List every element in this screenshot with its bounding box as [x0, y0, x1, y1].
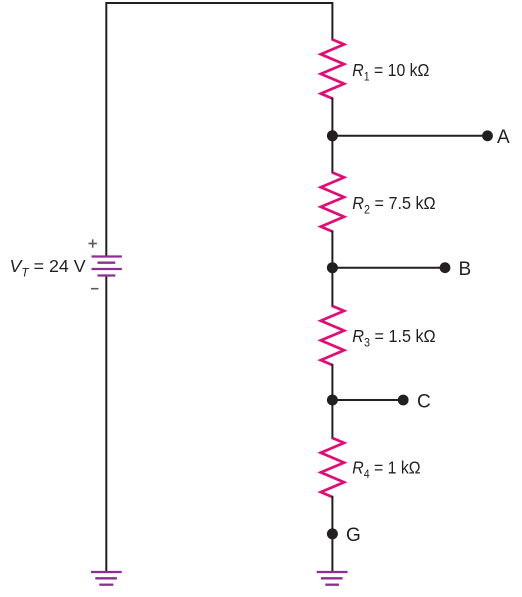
svg-text:R3 = 1.5 kΩ: R3 = 1.5 kΩ [352, 326, 436, 349]
node B end dot [440, 262, 451, 273]
wire right vertical seg2 (R1 to R2) [331, 98, 333, 174]
wire right vertical seg4 (R3 to R4) [331, 364, 333, 439]
svg-text:G: G [346, 525, 361, 546]
node A end dot [482, 130, 493, 141]
resistor R4 [321, 438, 344, 497]
svg-text:C: C [417, 391, 431, 412]
resistor R1 [321, 40, 344, 99]
resistor R3 [321, 306, 344, 365]
wire top horizontal [106, 2, 332, 4]
wire right vertical seg5 (R4 to ground) [331, 496, 333, 572]
svg-text:R1 = 10 kΩ: R1 = 10 kΩ [352, 60, 429, 84]
node B tap wire [332, 267, 445, 269]
resistor R2 [321, 173, 344, 232]
node C junction dot [327, 395, 338, 406]
node C end dot [398, 395, 409, 406]
wire right vertical seg1 (top to R1) [331, 2, 333, 41]
svg-text:A: A [497, 127, 510, 148]
wire left vertical upper [105, 2, 107, 257]
wire right vertical seg3 (R2 to R3) [331, 231, 333, 308]
battery plus sign [89, 239, 97, 247]
node A tap wire [332, 135, 487, 137]
wire left vertical lower [105, 276, 107, 572]
ground right [317, 572, 348, 585]
svg-text:VT = 24 V: VT = 24 V [10, 256, 86, 280]
battery VT [92, 257, 122, 276]
node C tap wire [332, 399, 403, 401]
svg-text:R2 = 7.5 kΩ: R2 = 7.5 kΩ [352, 193, 436, 216]
svg-text:R4 = 1 kΩ: R4 = 1 kΩ [352, 458, 420, 482]
node G dot [327, 528, 338, 539]
node B junction dot [327, 262, 338, 273]
svg-text:B: B [459, 259, 472, 280]
ground left [91, 572, 122, 585]
battery minus sign [91, 288, 99, 290]
node A junction dot [327, 130, 338, 141]
